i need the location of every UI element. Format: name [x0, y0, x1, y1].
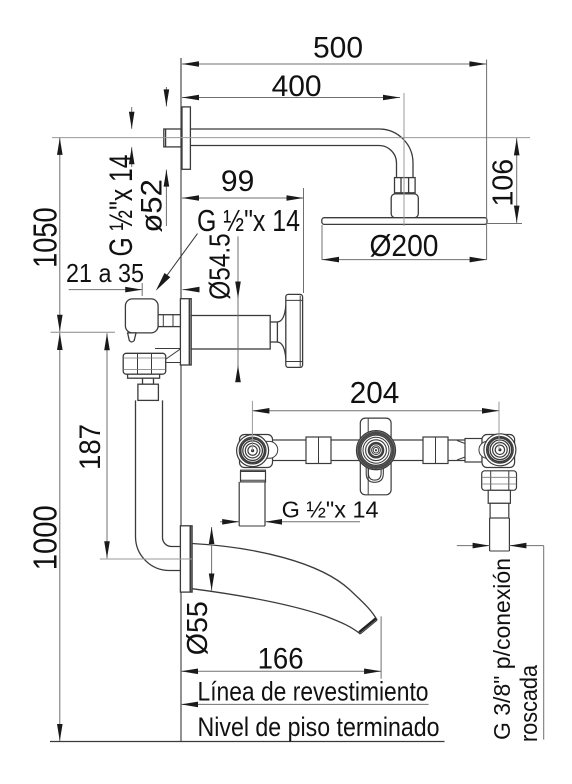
coupling rings left pipe [306, 437, 331, 464]
arrowheads dim 21a35 (outside pointing in) [125, 287, 142, 293]
dim 400 line [182, 97, 400, 99]
right valve hex nut [482, 471, 517, 491]
shower head disc [322, 218, 487, 225]
left valve circles [237, 435, 269, 467]
svg-text:ø52: ø52 [136, 179, 169, 233]
dim D54.5 line [237, 236, 239, 378]
mixer handle flare [277, 306, 285, 323]
center diverter knob [357, 431, 396, 470]
neck [143, 378, 154, 384]
collar under nut [128, 374, 160, 378]
spout escutcheon [180, 526, 192, 592]
dim 21a35 lines [69, 289, 143, 291]
crossbar pipe right segment [391, 440, 482, 461]
svg-text:G ½"x 14: G ½"x 14 [282, 496, 379, 522]
left valve tube down [238, 482, 240, 526]
svg-text:500: 500 [313, 32, 363, 65]
shower arm wall flange [182, 107, 190, 169]
threaded nipple [138, 384, 159, 400]
dim 1000 line [59, 333, 61, 741]
arrowheads dim D55 [209, 527, 215, 544]
fitting behind wall (shower arm supply) [164, 129, 181, 147]
svg-text:G ½"x 14: G ½"x 14 [103, 155, 139, 257]
linea de revestimiento leader line [181, 703, 429, 705]
rough valve body cap [125, 299, 158, 333]
arrowheads dim 106 [514, 138, 520, 155]
union block left of right valve [465, 439, 482, 463]
spout tube top edge [192, 544, 377, 621]
svg-text:99: 99 [221, 165, 254, 198]
mixer trim sleeve cylinder [191, 316, 270, 350]
svg-text:204: 204 [350, 375, 400, 410]
extension lines bottom valves [251, 401, 253, 451]
arrowheads dim D200 [322, 257, 339, 263]
shower head nut [395, 178, 416, 193]
svg-text:Ø54.5: Ø54.5 [204, 233, 236, 300]
arrowheads dim 1000 [57, 333, 63, 350]
shower arm pipe horizontal [190, 128, 379, 130]
centerline shower arm [52, 137, 530, 139]
wall line (finished wall surface) [180, 58, 182, 742]
dim G12 bottom lines [220, 521, 239, 523]
mixer cross handle bar [286, 294, 303, 367]
spout tube bottom edge [192, 589, 360, 634]
arrowheads dim 99 [182, 195, 199, 201]
svg-text:1000: 1000 [27, 505, 64, 570]
floor line (nivel de piso terminado) [50, 741, 445, 743]
arrowheads dim o52 (outside pointing in) [164, 89, 170, 106]
right valve circles [484, 434, 516, 466]
shower head body [391, 194, 418, 218]
dim 106 line [516, 138, 518, 223]
arrowheads dim G12x14 left (outside pointing in) [129, 112, 135, 129]
svg-text:Nivel de piso terminado: Nivel de piso terminado [198, 712, 440, 742]
right valve lower tube [489, 518, 491, 551]
arrowheads dim 166 [181, 669, 198, 675]
tick under disc right [487, 223, 522, 225]
dim 204 line [252, 410, 499, 412]
dim 99 line [182, 197, 304, 199]
supply tube down [135, 400, 137, 536]
crossbar pipe left segment [270, 440, 360, 461]
union hex nut [123, 353, 166, 374]
wall cut wedge [155, 348, 180, 350]
center valve tall body [360, 418, 391, 495]
arrowheads dim D54.5 (outside pointing in) [235, 282, 241, 299]
dim 187 line [106, 333, 108, 558]
rough valve outlet band to wall [137, 315, 180, 327]
right valve ear [479, 441, 490, 458]
center valve U tab [366, 466, 383, 482]
right valve body [482, 435, 515, 468]
svg-text:21 a 35: 21 a 35 [66, 258, 144, 288]
extension line right (500 / disc) [486, 60, 488, 261]
dim o52 line segments [165, 87, 167, 106]
dim D55 line [211, 527, 213, 591]
arrowheads dim 1050 [57, 138, 63, 155]
arrowhead leader mid [156, 273, 171, 291]
left valve body [240, 435, 273, 468]
dim 166 line [181, 670, 381, 672]
arrowhead revestimiento leader [181, 702, 198, 708]
shower arm bend [379, 129, 413, 178]
svg-text:106: 106 [487, 159, 519, 207]
left valve nut band [241, 471, 266, 482]
svg-text:166: 166 [258, 642, 304, 675]
svg-text:Ø200: Ø200 [370, 228, 439, 263]
left valve collar [241, 470, 266, 471]
mixer escutcheon on wall [180, 299, 191, 365]
extension line handle right [303, 188, 305, 293]
dim G38 lines [457, 545, 490, 547]
extension line disc left [321, 225, 323, 260]
svg-text:roscada: roscada [516, 664, 543, 742]
right valve thread [490, 503, 509, 518]
left valve ear [266, 441, 277, 458]
centerline spout [100, 558, 192, 560]
centerline shower head vertical [403, 93, 405, 226]
coupling rings right pipe [423, 437, 448, 464]
arrowheads dim 400 [182, 95, 199, 101]
svg-text:Ø55: Ø55 [182, 601, 214, 655]
dim 1050 line [59, 138, 61, 332]
dim G12x14 rotated line segments [131, 107, 133, 129]
right valve tube [488, 490, 510, 503]
arrowheads dim 204 [252, 408, 269, 414]
arrowheads dim G38 (outside pointing in) [473, 543, 490, 549]
rough valve nub [128, 333, 136, 342]
svg-text:1050: 1050 [26, 207, 63, 268]
dim D200 line [322, 259, 487, 261]
svg-text:Línea de revestimiento: Línea de revestimiento [198, 677, 429, 707]
leader G12x14 mid [160, 234, 198, 285]
supply tube bend to wall [136, 537, 182, 571]
extension line spout tip [380, 616, 382, 679]
centerline mixer tick [51, 331, 115, 333]
arrowheads dim 500 [182, 61, 199, 67]
mixer stem [270, 322, 277, 342]
dim 500 line [182, 63, 486, 65]
svg-text:187: 187 [74, 424, 107, 470]
arrowheads dim G12 bottom (outside pointing in) [222, 519, 239, 525]
arrowheads dim 187 [104, 333, 110, 350]
svg-text:G ½"x 14: G ½"x 14 [197, 203, 300, 238]
svg-text:G 3/8" p/conexión: G 3/8" p/conexión [489, 558, 515, 740]
svg-text:400: 400 [272, 70, 322, 103]
spout tip [360, 620, 377, 634]
